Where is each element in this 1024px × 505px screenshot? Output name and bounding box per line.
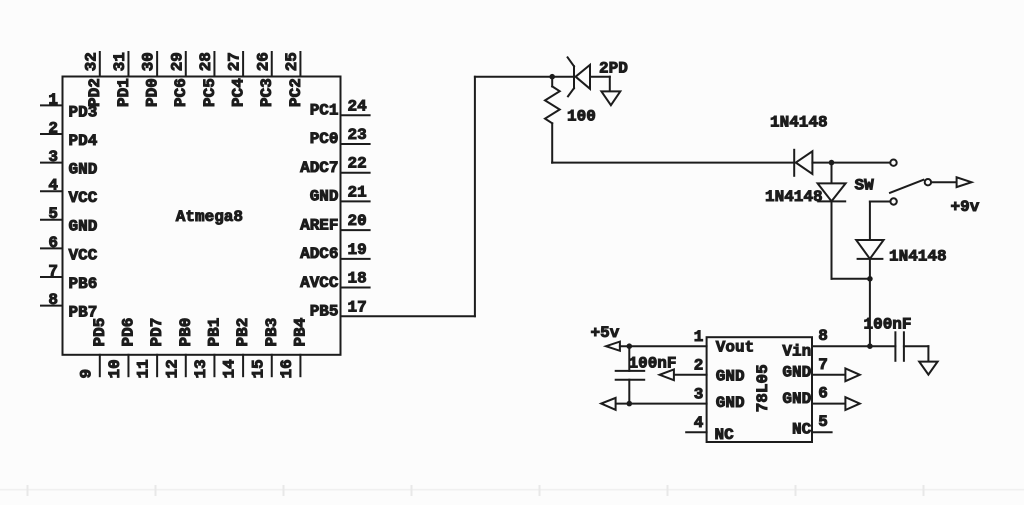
svg-text:100nF: 100nF [864, 315, 912, 333]
Atmega8 pin 7 (PB6) [41, 262, 97, 293]
label 100nF (C2) [864, 315, 912, 333]
svg-text:25: 25 [283, 52, 301, 71]
svg-text:7: 7 [818, 356, 828, 374]
svg-text:ADC6: ADC6 [300, 245, 338, 263]
svg-text:PB6: PB6 [69, 275, 98, 293]
Atmega8 pin 8 (PB7) [41, 291, 97, 322]
wire 2PD anode to ground [590, 77, 610, 92]
Atmega8 pin 11 (PD7) [135, 318, 166, 379]
ground symbol at C2 [919, 362, 937, 375]
Atmega8 pin 13 (PB1) [192, 318, 223, 379]
svg-text:PB5: PB5 [310, 303, 339, 321]
label 1N4148 (D3) [765, 188, 823, 206]
node B junction [829, 160, 835, 184]
svg-text:PB1: PB1 [205, 318, 223, 347]
svg-text:NC: NC [715, 426, 735, 444]
svg-text:AVCC: AVCC [300, 274, 339, 292]
svg-text:23: 23 [348, 126, 367, 144]
svg-text:14: 14 [221, 359, 239, 379]
Atmega8 pin 10 (PD6) [106, 318, 137, 379]
svg-text:29: 29 [168, 52, 186, 71]
Atmega8 pin 29 (PC6) [168, 52, 190, 107]
svg-text:11: 11 [135, 359, 153, 378]
svg-text:PB3: PB3 [263, 318, 281, 347]
faint bottom rule [0, 486, 1024, 495]
Atmega8 pin 5 (GND) [41, 205, 97, 236]
svg-text:24: 24 [348, 97, 368, 115]
svg-text:20: 20 [348, 212, 367, 230]
U2 pin 4 (NC) [686, 414, 734, 444]
Atmega8 pin 24 (PC1) [310, 97, 370, 119]
svg-text:7: 7 [48, 262, 58, 280]
Atmega8 pin 2 (PD4) [41, 119, 98, 150]
switch SW contact 2 [890, 198, 896, 204]
Atmega8 pin 12 (PB0) [163, 318, 194, 379]
node D junction (Vin) [867, 343, 873, 349]
label +5v [591, 324, 620, 342]
svg-text:GND: GND [310, 188, 339, 206]
svg-text:13: 13 [192, 359, 210, 378]
label 100 [567, 108, 596, 126]
svg-text:VCC: VCC [69, 246, 98, 264]
Atmega8 pin 32 (PD2) [82, 52, 104, 107]
Atmega8 pin 20 (AREF) [300, 212, 370, 234]
svg-text:Vin: Vin [782, 343, 811, 361]
Atmega8 pin 18 (AVCC) [300, 270, 370, 292]
Atmega8 pin 30 (PD0) [140, 52, 162, 107]
svg-text:8: 8 [818, 327, 828, 345]
switch SW blade [890, 180, 923, 193]
svg-text:PD1: PD1 [115, 78, 133, 107]
svg-text:PD4: PD4 [69, 132, 98, 150]
wire SW common to +9v [932, 181, 957, 183]
Atmega8 pin 15 (PB3) [249, 318, 280, 379]
op-amp U1 Atmega8 body [63, 77, 341, 355]
svg-text:PD7: PD7 [148, 318, 166, 347]
Atmega8 pin 22 (ADC7) [300, 155, 370, 177]
U2 pin 8 (Vin) [782, 327, 870, 360]
svg-text:1: 1 [694, 328, 704, 346]
svg-text:18: 18 [348, 270, 367, 288]
Atmega8 pin 4 (VCC) [41, 177, 98, 208]
U2 pin 5 (NC) [792, 413, 832, 438]
diode D2 1N4148 [794, 150, 812, 176]
svg-text:PB4: PB4 [291, 317, 309, 346]
svg-text:VCC: VCC [69, 189, 98, 207]
svg-text:12: 12 [163, 359, 181, 378]
switch SW common contact [925, 179, 931, 185]
svg-text:PD5: PD5 [91, 318, 109, 347]
svg-text:PC3: PC3 [258, 78, 276, 107]
svg-text:15: 15 [249, 359, 267, 378]
svg-text:6: 6 [818, 385, 828, 403]
wire R1 to D2 [552, 162, 794, 164]
svg-text:+5v: +5v [591, 324, 620, 342]
regulator U2 78L05 body [707, 337, 812, 442]
svg-text:4: 4 [48, 177, 58, 195]
wire D4 to node D [869, 259, 871, 346]
svg-text:GND: GND [782, 363, 811, 381]
svg-text:GND: GND [69, 161, 98, 179]
svg-text:PC1: PC1 [310, 102, 339, 120]
Atmega8 pin 25 (PC2) [283, 52, 305, 107]
label 100nF (C1) [629, 354, 677, 372]
svg-text:PC4: PC4 [230, 78, 248, 107]
label SW [855, 176, 875, 194]
svg-text:AREF: AREF [300, 216, 338, 234]
svg-text:31: 31 [111, 52, 129, 71]
svg-text:27: 27 [226, 52, 244, 71]
svg-text:21: 21 [348, 183, 367, 201]
svg-text:NC: NC [792, 420, 812, 438]
svg-text:5: 5 [48, 205, 58, 223]
label 1N4148 (D2) [770, 114, 828, 132]
ground arrow pin 6 [845, 397, 859, 410]
svg-text:1: 1 [48, 91, 58, 109]
Atmega8 pin 17 (PB5) [310, 298, 367, 320]
wire C1 to ground rail [628, 380, 630, 404]
svg-text:PC0: PC0 [310, 130, 339, 148]
svg-text:1N4148: 1N4148 [765, 188, 823, 206]
U2 pin 2 (GND) [674, 357, 745, 386]
svg-text:GND: GND [716, 394, 745, 412]
svg-text:5: 5 [818, 413, 828, 431]
ground arrow pin 3 [601, 398, 615, 410]
Atmega8 pin 6 (VCC) [41, 234, 98, 264]
node F junction [627, 401, 633, 407]
svg-text:PC2: PC2 [287, 78, 305, 107]
U2 pin 3 (GND) [616, 385, 745, 411]
wire node D to C2 [870, 345, 896, 347]
supply +9v arrow [957, 177, 972, 187]
resistor R1 100 [545, 77, 560, 163]
Atmega8 pin 19 (ADC6) [300, 241, 370, 263]
svg-text:100: 100 [567, 108, 596, 126]
svg-text:GND: GND [716, 368, 745, 386]
svg-text:Atmega8: Atmega8 [176, 208, 243, 226]
Atmega8 pin 31 (PD1) [111, 52, 133, 107]
Atmega8 pin 14 (PB2) [221, 318, 252, 379]
svg-text:10: 10 [106, 359, 124, 378]
Atmega8 pin 16 (PB4) [278, 317, 309, 378]
Atmega8 pin 27 (PC4) [226, 52, 248, 107]
svg-text:GND: GND [69, 218, 98, 236]
wire D3 to node C [832, 201, 870, 278]
svg-text:1N4148: 1N4148 [770, 114, 828, 132]
Atmega8 pin 3 (GND) [41, 148, 97, 179]
supply +5v arrow [606, 342, 620, 351]
svg-text:6: 6 [48, 234, 58, 252]
wire D2 to switch [812, 162, 890, 164]
svg-text:19: 19 [348, 241, 367, 259]
svg-text:4: 4 [694, 414, 704, 432]
wire C2 to ground [904, 346, 929, 361]
svg-text:PB2: PB2 [234, 318, 252, 347]
label +9v [951, 198, 980, 216]
svg-text:2: 2 [48, 119, 58, 137]
Atmega8 pin 23 (PC0) [310, 126, 370, 148]
label 1N4148 (D4) [889, 247, 947, 265]
svg-text:PD6: PD6 [119, 318, 137, 347]
node E junction [627, 343, 633, 370]
svg-text:1N4148: 1N4148 [889, 247, 947, 265]
svg-text:3: 3 [48, 148, 58, 166]
svg-text:2PD: 2PD [599, 60, 628, 78]
wire SW to D4 [870, 202, 891, 241]
Atmega8 pin 21 (GND) [310, 183, 370, 205]
svg-text:8: 8 [48, 291, 58, 309]
svg-text:9: 9 [77, 369, 95, 379]
capacitor C1 100nF [616, 371, 645, 380]
svg-text:2: 2 [694, 357, 704, 375]
node C junction [867, 276, 873, 282]
Atmega8 pin 26 (PC3) [254, 52, 276, 107]
svg-text:16: 16 [278, 359, 296, 378]
ground arrow pin 7 [845, 368, 859, 381]
Atmega8 pin 1 (PD3) [41, 91, 97, 122]
label 2PD [599, 60, 628, 78]
node A junction [549, 74, 574, 80]
switch SW contact 1 [890, 160, 896, 166]
svg-text:17: 17 [348, 298, 367, 316]
diode D4 1N4148 [856, 240, 883, 259]
U2 pin 7 (GND) [782, 356, 845, 382]
svg-text:Vout: Vout [716, 339, 754, 357]
svg-text:26: 26 [254, 52, 272, 71]
ground arrow pin 2 [660, 369, 674, 380]
svg-text:SW: SW [855, 176, 875, 194]
svg-text:PD0: PD0 [144, 78, 162, 107]
Atmega8 pin 9 (PD5) [77, 318, 108, 379]
wire PB5 to node A [341, 77, 554, 317]
svg-text:3: 3 [694, 385, 704, 403]
wire +5v to U2 pin 1 [620, 345, 707, 347]
svg-text:+9v: +9v [951, 198, 980, 216]
svg-text:PD2: PD2 [86, 78, 104, 107]
svg-text:30: 30 [140, 52, 158, 71]
U2 pin 1 (Vout) [694, 328, 755, 357]
svg-text:GND: GND [782, 390, 811, 408]
svg-text:28: 28 [197, 52, 215, 71]
photodiode D1 2PD [568, 57, 590, 96]
svg-text:22: 22 [348, 155, 367, 173]
svg-text:78L05: 78L05 [754, 364, 772, 412]
ground symbol at 2PD [601, 91, 620, 105]
svg-text:PC5: PC5 [201, 78, 219, 107]
svg-text:PB0: PB0 [177, 318, 195, 347]
Atmega8 pin 28 (PC5) [197, 52, 219, 107]
capacitor C2 100nF [895, 332, 904, 361]
svg-text:PC6: PC6 [172, 78, 190, 107]
svg-text:100nF: 100nF [629, 354, 677, 372]
U2 pin 6 (GND) [782, 385, 845, 408]
svg-text:ADC7: ADC7 [300, 159, 338, 177]
svg-text:32: 32 [82, 52, 100, 71]
diode D3 1N4148 [818, 183, 846, 201]
